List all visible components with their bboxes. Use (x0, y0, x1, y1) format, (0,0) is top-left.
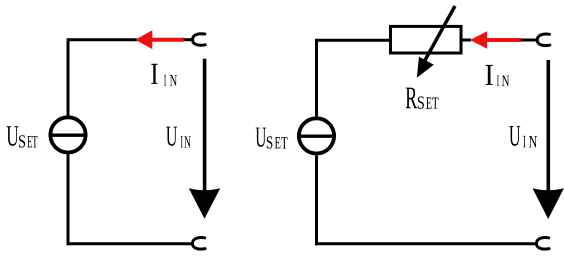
wire: left circuit stub to top terminal (184, 38, 193, 41)
current arrow I_IN (left circuit, red) (135, 30, 184, 49)
wire: right circuit bottom segment (315, 242, 536, 245)
wire: right circuit top segment (317, 39, 392, 42)
current arrow I_IN (right circuit, red) (470, 31, 521, 49)
wire: right circuit left vertical (315, 39, 318, 117)
resistor R_SET (variable, right circuit) (391, 6, 462, 78)
label I_IN (left circuit) (151, 64, 177, 86)
terminal: right circuit bottom-right (open hook) (536, 238, 549, 250)
wire: left circuit top segment (68, 38, 137, 41)
wire: left circuit left vertical below source (67, 154, 70, 245)
source U2: voltage source U_SET (right circuit) (297, 118, 336, 153)
wire: left circuit bottom segment (67, 242, 195, 245)
label U_SET (left circuit) (7, 126, 38, 147)
voltage arrow U_IN (right circuit) (533, 60, 564, 219)
wire: left circuit left vertical (67, 38, 70, 116)
label U_IN (left circuit) (166, 127, 191, 148)
wire: right circuit stub to top terminal (521, 39, 537, 42)
label U_IN (right circuit) (509, 126, 537, 147)
label R_SET (right circuit) (406, 88, 439, 109)
terminal: left circuit bottom-right (open hook) (192, 238, 205, 250)
terminal: right circuit top-right (open hook) (537, 34, 550, 46)
voltage arrow U_IN (left circuit) (189, 59, 220, 219)
wire: right circuit stub resistor to red arrow (461, 39, 471, 42)
terminal: left circuit top-right (open hook) (193, 34, 206, 46)
label U_SET (right circuit) (256, 128, 288, 149)
source U1: voltage source U_SET (left circuit) (49, 117, 88, 152)
wire: right circuit left vertical below source (315, 155, 318, 245)
label I_IN (right circuit) (486, 65, 510, 86)
